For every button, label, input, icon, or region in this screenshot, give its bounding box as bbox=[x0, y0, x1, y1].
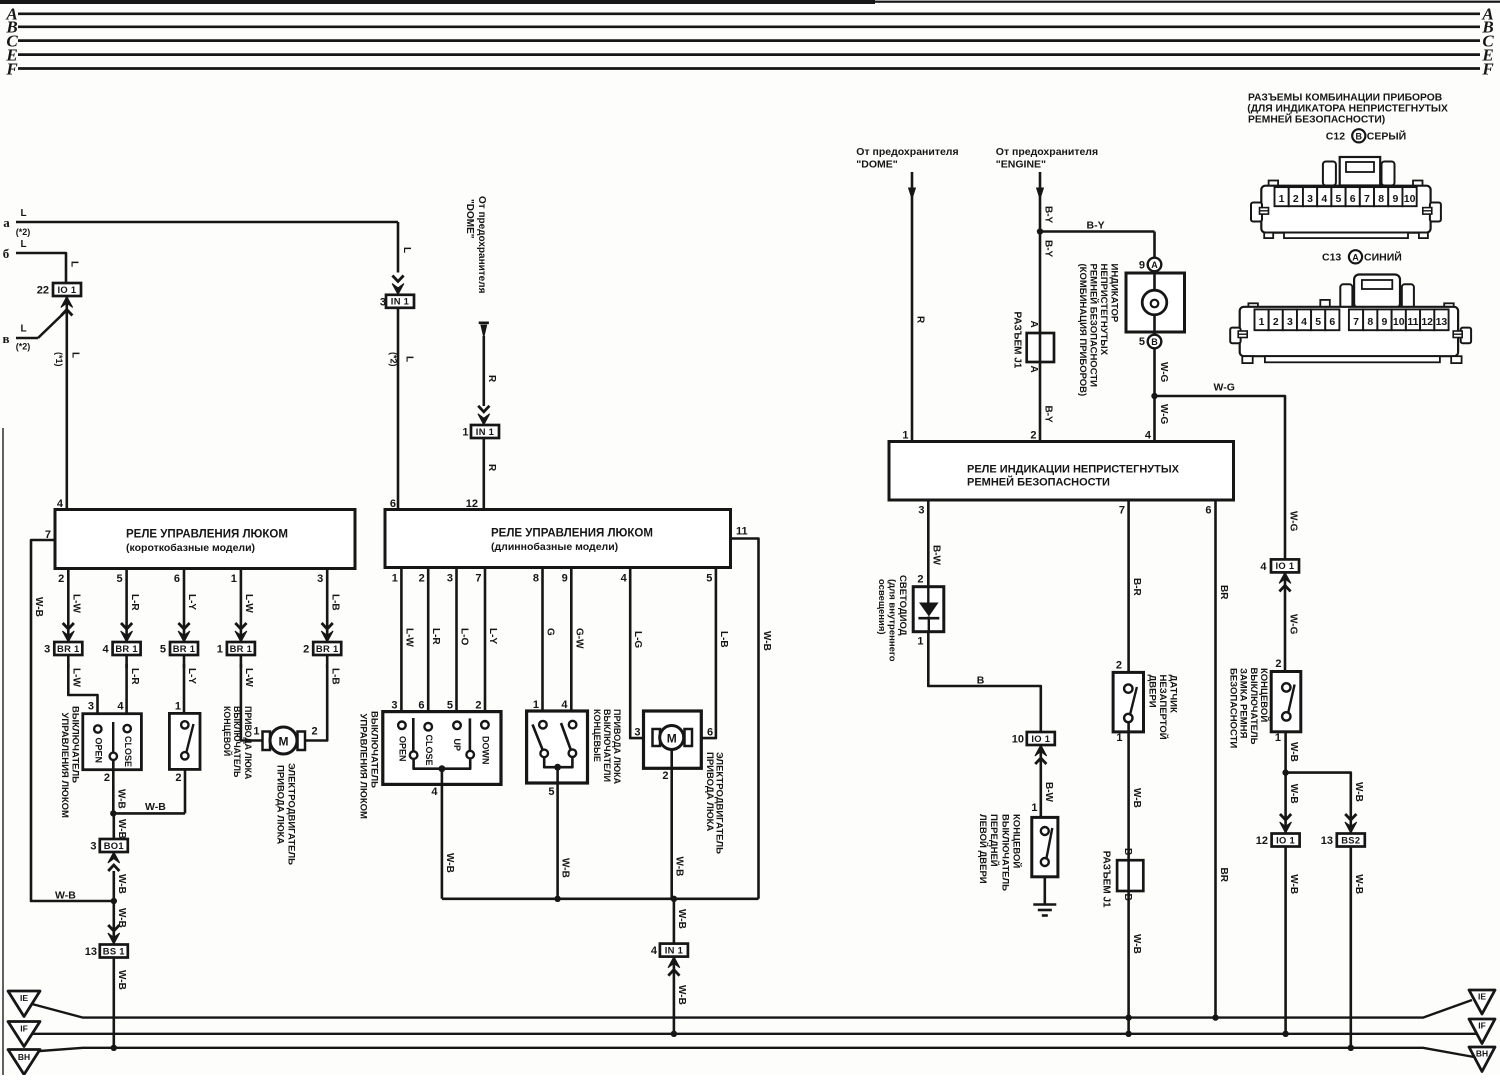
svg-text:C13: C13 bbox=[1322, 252, 1341, 264]
svg-text:BR 1: BR 1 bbox=[173, 643, 196, 654]
bulb bbox=[1142, 290, 1167, 315]
svg-text:W-G: W-G bbox=[1287, 511, 1298, 532]
svg-text:3: 3 bbox=[1287, 316, 1293, 328]
wire lamp branch down bbox=[1153, 232, 1156, 258]
svg-text:C12: C12 bbox=[1326, 131, 1345, 143]
svg-text:R: R bbox=[486, 464, 497, 472]
switch S6: ДАТЧИК НЕЗАПЕРТОЙ ДВЕРИ bbox=[1113, 672, 1143, 732]
bus line C bbox=[18, 39, 1480, 42]
wire relay2 pin 5 (L-B) bbox=[693, 568, 716, 739]
svg-text:(короткобазные модели): (короткобазные модели) bbox=[126, 542, 255, 554]
wire node б to IO1 bbox=[16, 253, 66, 283]
svg-text:1: 1 bbox=[902, 430, 908, 442]
svg-text:W-G: W-G bbox=[1158, 362, 1169, 383]
svg-text:5: 5 bbox=[548, 786, 554, 798]
svg-text:22: 22 bbox=[37, 285, 49, 297]
svg-text:W-B: W-B bbox=[116, 908, 127, 928]
svg-text:КОНЦЕВЫЕ: КОНЦЕВЫЕ bbox=[592, 709, 602, 762]
junction dot on IF bbox=[671, 1031, 677, 1037]
triangle IF right bbox=[1469, 1019, 1495, 1044]
contact CLOSE bbox=[124, 725, 131, 732]
svg-text:2: 2 bbox=[475, 700, 481, 712]
wire relay1 pin 7 W-B bbox=[31, 540, 114, 901]
wire IO1-12 to bus IF bbox=[1284, 847, 1287, 1034]
svg-text:7: 7 bbox=[1364, 193, 1370, 205]
connector BR1 pin 5 bbox=[170, 642, 198, 655]
junction dot on BH bbox=[111, 1045, 117, 1051]
wire S7 down bbox=[1284, 732, 1287, 834]
svg-text:3: 3 bbox=[634, 727, 640, 739]
wire node в diagonal bbox=[16, 337, 38, 340]
svg-text:8: 8 bbox=[1367, 316, 1373, 328]
svg-text:ЛЕВОЙ ДВЕРИ: ЛЕВОЙ ДВЕРИ bbox=[977, 814, 989, 884]
arrow up into IO1-4 bbox=[1279, 572, 1291, 591]
wire relay1 pin 6 (L-Y) bbox=[183, 569, 186, 644]
svg-text:ВЫКЛЮЧАТЕЛЬ: ВЫКЛЮЧАТЕЛЬ bbox=[369, 711, 380, 788]
svg-text:2: 2 bbox=[662, 770, 668, 782]
svg-text:4: 4 bbox=[102, 644, 109, 656]
svg-text:B-Y: B-Y bbox=[1042, 406, 1053, 424]
svg-text:5: 5 bbox=[160, 644, 166, 656]
svg-text:A: A bbox=[1028, 366, 1039, 373]
wire relay3 pin 7 (B-R) bbox=[1127, 500, 1130, 685]
svg-text:13: 13 bbox=[1436, 316, 1448, 328]
wire below BR1 pin 2 (L-B) bbox=[326, 655, 329, 668]
svg-text:2: 2 bbox=[917, 574, 923, 586]
svg-text:4: 4 bbox=[651, 945, 658, 957]
arrow up into IN1-4 bbox=[668, 957, 680, 976]
svg-text:B-W: B-W bbox=[931, 545, 942, 566]
arrow into BS2 bbox=[1345, 814, 1357, 833]
wire B-Y to lamp bbox=[1040, 230, 1155, 233]
connector IO1 pin 22 bbox=[53, 283, 81, 296]
svg-text:F: F bbox=[1481, 59, 1494, 78]
svg-text:BH: BH bbox=[18, 1052, 30, 1062]
wire S3 pin 4 down bbox=[441, 784, 444, 898]
contact bbox=[398, 722, 406, 730]
svg-text:БЕЗОПАСНОСТИ: БЕЗОПАСНОСТИ bbox=[1227, 668, 1238, 748]
svg-text:BO1: BO1 bbox=[104, 840, 124, 851]
wire below BR1 pin 5 (L-Y) bbox=[183, 655, 186, 668]
svg-text:От предохранителя: От предохранителя bbox=[856, 146, 958, 158]
bus line F bbox=[18, 67, 1480, 70]
svg-text:W-B: W-B bbox=[1353, 874, 1364, 894]
relay U3: РЕЛЕ ИНДИКАЦИИ НЕПРИСТЕГНУТЫХ РЕМНЕЙ БЕЗОПАСНОСТИ bbox=[889, 442, 1234, 501]
svg-text:а: а bbox=[3, 215, 10, 230]
junction dot M2 bbox=[671, 896, 677, 902]
svg-text:L: L bbox=[20, 324, 26, 335]
svg-text:4: 4 bbox=[1301, 316, 1307, 328]
svg-text:7: 7 bbox=[1353, 316, 1359, 328]
contact common bbox=[110, 753, 117, 760]
svg-text:L-W: L-W bbox=[71, 594, 82, 613]
svg-text:BR: BR bbox=[1218, 585, 1229, 600]
triangle IF left bbox=[8, 1022, 40, 1047]
svg-text:5: 5 bbox=[1315, 316, 1321, 328]
svg-text:3: 3 bbox=[447, 573, 453, 585]
svg-text:CLOSE: CLOSE bbox=[424, 735, 434, 766]
wire limit switch pin 2 bbox=[184, 770, 187, 814]
svg-text:6: 6 bbox=[1350, 193, 1356, 205]
contact S4 d bbox=[569, 749, 577, 757]
arrow into IN1-3 bbox=[392, 276, 404, 295]
svg-text:1: 1 bbox=[253, 726, 259, 738]
svg-text:2: 2 bbox=[419, 573, 425, 585]
svg-text:4: 4 bbox=[1145, 430, 1152, 442]
junction dot pin6 on IE bbox=[1212, 1014, 1218, 1020]
wire relay2 pin 2 (L-R) bbox=[427, 568, 430, 722]
contact bottom S2 bbox=[181, 752, 188, 759]
bus IF bbox=[33, 1033, 1477, 1035]
svg-text:ДАТЧИК: ДАТЧИК bbox=[1168, 675, 1179, 713]
svg-text:1: 1 bbox=[217, 644, 223, 656]
svg-text:B-Y: B-Y bbox=[1042, 206, 1053, 224]
wire IO1-10 to door switch bbox=[1040, 745, 1043, 827]
triangle IE left bbox=[8, 991, 40, 1017]
svg-text:B-Y: B-Y bbox=[1042, 240, 1053, 258]
svg-text:IF: IF bbox=[20, 1024, 28, 1034]
svg-text:W-B: W-B bbox=[145, 801, 166, 813]
svg-text:(длиннобазные модели): (длиннобазные модели) bbox=[491, 541, 618, 553]
junction dot on IE bbox=[1125, 1014, 1131, 1020]
top border bar bbox=[0, 0, 875, 4]
svg-text:10: 10 bbox=[1404, 193, 1416, 205]
arrow into BS1 bbox=[108, 925, 120, 944]
svg-text:BS2: BS2 bbox=[1341, 834, 1360, 845]
contact OPEN bbox=[94, 725, 101, 732]
bus line E bbox=[18, 53, 1480, 56]
wire relay2 pin 4 (L-G) bbox=[630, 568, 652, 739]
switch S5: КОНЦЕВОЙ ВЫКЛЮЧАТЕЛЬ ПЕРЕДНЕЙ ЛЕВОЙ ДВЕРИ bbox=[1032, 817, 1058, 876]
svg-text:2: 2 bbox=[1030, 430, 1036, 442]
svg-text:6: 6 bbox=[418, 700, 424, 712]
bus IE bbox=[32, 1000, 1472, 1018]
wire BS2 to bus BH bbox=[1350, 847, 1353, 1048]
wire relay3 pin 6 (BR) bbox=[1214, 500, 1217, 1018]
svg-text:2: 2 bbox=[1116, 660, 1122, 672]
svg-text:W-B: W-B bbox=[1288, 742, 1299, 762]
wire relay2 pin 1 (L-W) bbox=[400, 568, 403, 722]
svg-text:IN 1: IN 1 bbox=[665, 944, 683, 955]
wire relay2 pin 11 W-B bbox=[731, 539, 759, 899]
svg-text:1: 1 bbox=[1279, 193, 1285, 205]
wire BR1-2 to motor bbox=[306, 664, 327, 741]
C12 pin cells bbox=[1275, 187, 1289, 206]
connector ring A pin 9 bbox=[1148, 258, 1162, 272]
svg-text:4: 4 bbox=[1321, 193, 1327, 205]
connector IN1 pin 4 bbox=[660, 944, 688, 957]
svg-text:W-B: W-B bbox=[1353, 782, 1364, 802]
svg-text:УПРАВЛЕНИЯ ЛЮКОМ: УПРАВЛЕНИЯ ЛЮКОМ bbox=[358, 714, 369, 820]
common link to pin 4 bbox=[414, 759, 471, 769]
svg-text:L-R: L-R bbox=[430, 628, 441, 645]
svg-text:3: 3 bbox=[918, 505, 924, 517]
svg-text:РЕМНЕЙ БЕЗОПАСНОСТИ: РЕМНЕЙ БЕЗОПАСНОСТИ bbox=[1087, 264, 1099, 388]
svg-text:12: 12 bbox=[1256, 835, 1268, 847]
svg-text:ВЫКЛЮЧАТЕЛЬ: ВЫКЛЮЧАТЕЛЬ bbox=[999, 814, 1010, 891]
svg-text:L-G: L-G bbox=[632, 631, 643, 648]
common link S4 bbox=[544, 757, 572, 767]
svg-text:B: B bbox=[1356, 131, 1363, 141]
wire node a to IN1 bbox=[16, 221, 398, 224]
svg-text:W-B: W-B bbox=[115, 789, 126, 809]
svg-text:2: 2 bbox=[303, 644, 309, 656]
svg-text:IE: IE bbox=[1478, 992, 1486, 1002]
arrow into IO1-12 bbox=[1280, 814, 1292, 833]
wire S5 to ground bbox=[1044, 877, 1047, 905]
wire relay3 pin 3 (B-W) bbox=[927, 500, 930, 587]
svg-text:4: 4 bbox=[561, 699, 568, 711]
svg-text:L-O: L-O bbox=[459, 628, 470, 645]
switch arm bbox=[112, 722, 114, 752]
svg-text:W-B: W-B bbox=[676, 909, 687, 929]
wire BS1 to bus BH bbox=[113, 958, 116, 1048]
wire relay1 pin 5 (L-R) bbox=[125, 569, 128, 644]
svg-text:B-R: B-R bbox=[1131, 578, 1142, 597]
wire below BR1 pin 4 (L-R) bbox=[125, 655, 128, 668]
svg-text:W-B: W-B bbox=[761, 631, 772, 651]
svg-text:W-B: W-B bbox=[1131, 934, 1142, 954]
svg-text:УПРАВЛЕНИЯ ЛЮКОМ: УПРАВЛЕНИЯ ЛЮКОМ bbox=[59, 713, 70, 819]
contact S4 b bbox=[569, 721, 577, 729]
connector BR1 pin 2 bbox=[313, 642, 341, 655]
svg-text:9: 9 bbox=[1382, 316, 1388, 328]
svg-text:ЭЛЕКТРОДВИГАТЕЛЬ: ЭЛЕКТРОДВИГАТЕЛЬ bbox=[286, 763, 297, 865]
svg-text:7: 7 bbox=[475, 573, 481, 585]
svg-text:4: 4 bbox=[1260, 561, 1267, 573]
svg-text:W-B: W-B bbox=[116, 874, 127, 894]
svg-text:L: L bbox=[20, 239, 26, 250]
svg-text:BR 1: BR 1 bbox=[57, 643, 80, 654]
svg-text:12: 12 bbox=[1421, 316, 1433, 328]
svg-text:1: 1 bbox=[1031, 802, 1037, 814]
svg-text:(для внутреннего: (для внутреннего bbox=[886, 579, 897, 662]
svg-text:L-B: L-B bbox=[329, 668, 340, 685]
svg-text:IO 1: IO 1 bbox=[1031, 733, 1050, 744]
left page border bbox=[2, 428, 4, 1075]
svg-text:КОНЦЕВОЙ: КОНЦЕВОЙ bbox=[222, 706, 233, 756]
connector ring B pin 5 bbox=[1148, 335, 1162, 349]
triangle BH right bbox=[1469, 1047, 1495, 1072]
wire BR1-4 to switch CLOSE bbox=[125, 664, 128, 725]
connector C13 drawing bbox=[1230, 275, 1471, 364]
svg-text:2: 2 bbox=[1273, 316, 1279, 328]
svg-text:РЕМНЕЙ БЕЗОПАСНОСТИ: РЕМНЕЙ БЕЗОПАСНОСТИ bbox=[967, 476, 1110, 489]
contact common 2 bbox=[466, 751, 474, 759]
svg-text:L: L bbox=[404, 356, 415, 362]
wire branch to BS2 bbox=[1286, 773, 1351, 834]
svg-text:BR 1: BR 1 bbox=[115, 643, 138, 654]
svg-text:3: 3 bbox=[1307, 193, 1313, 205]
svg-text:3: 3 bbox=[44, 644, 50, 656]
svg-text:РЕМНЕЙ БЕЗОПАСНОСТИ): РЕМНЕЙ БЕЗОПАСНОСТИ) bbox=[1248, 112, 1385, 125]
svg-text:ИНДИКАТОР: ИНДИКАТОР bbox=[1108, 264, 1119, 323]
svg-text:НЕПРИСТЕГНУТЫХ: НЕПРИСТЕГНУТЫХ bbox=[1098, 264, 1109, 356]
wire node a drop to IN1-3 bbox=[397, 222, 400, 273]
svg-text:4: 4 bbox=[431, 786, 438, 798]
ground bbox=[1033, 903, 1056, 906]
svg-text:L-B: L-B bbox=[718, 631, 729, 648]
wire S1/S2 junction to BO1 bbox=[113, 813, 116, 852]
svg-text:W-B: W-B bbox=[1288, 784, 1299, 804]
svg-text:(*1): (*1) bbox=[54, 352, 64, 367]
wire S6 to J1 bbox=[1127, 722, 1130, 860]
wire below BR1 pin 3 (L-W) bbox=[67, 655, 70, 668]
svg-text:DOWN: DOWN bbox=[481, 736, 491, 765]
connector C12 drawing bbox=[1251, 157, 1441, 238]
svg-text:ПРИВОДА ЛЮКА: ПРИВОДА ЛЮКА bbox=[612, 709, 622, 785]
wire IO1 to relay pin 4 bbox=[66, 297, 69, 510]
connector BS2 pin 13 bbox=[1337, 834, 1365, 847]
wire DOME to relay3 pin 1 bbox=[911, 172, 914, 442]
junction dot S7 bbox=[1282, 769, 1288, 775]
switch arm 2 bbox=[469, 718, 472, 750]
svg-text:R: R bbox=[914, 316, 925, 324]
svg-text:8: 8 bbox=[533, 573, 539, 585]
svg-text:W-B: W-B bbox=[55, 890, 76, 902]
svg-text:G: G bbox=[545, 628, 556, 636]
contact top S2 bbox=[181, 721, 188, 728]
feed arrow DOME bbox=[479, 321, 489, 324]
svg-text:РАЗЪЕМ J1: РАЗЪЕМ J1 bbox=[1101, 851, 1112, 908]
arrow into BR1 pin 4 bbox=[121, 623, 133, 642]
svg-text:B: B bbox=[1151, 337, 1158, 347]
svg-text:ВЫКЛЮЧАТЕЛИ: ВЫКЛЮЧАТЕЛИ bbox=[602, 709, 612, 782]
svg-text:"DOME": "DOME" bbox=[464, 199, 475, 239]
wire BR1-1 to motor bbox=[241, 664, 262, 741]
svg-text:L-R: L-R bbox=[129, 668, 140, 685]
svg-text:РЕЛЕ УПРАВЛЕНИЯ ЛЮКОМ: РЕЛЕ УПРАВЛЕНИЯ ЛЮКОМ bbox=[126, 529, 288, 541]
svg-text:B: B bbox=[977, 675, 985, 687]
switch S3: ВЫКЛЮЧАТЕЛЬ УПРАВЛЕНИЯ ЛЮКОМ (long) bbox=[383, 712, 501, 785]
svg-text:IO 1: IO 1 bbox=[1276, 560, 1295, 571]
svg-text:б: б bbox=[3, 246, 10, 261]
svg-text:"DOME": "DOME" bbox=[856, 158, 897, 170]
wire BR1-3 to switch OPEN bbox=[68, 664, 97, 725]
wire IN1-1 to relay2 pin 12 bbox=[482, 437, 485, 509]
svg-text:2: 2 bbox=[1275, 658, 1281, 670]
svg-text:A: A bbox=[1028, 321, 1039, 328]
svg-text:6: 6 bbox=[1329, 316, 1335, 328]
svg-text:(*2): (*2) bbox=[389, 352, 399, 367]
svg-text:3: 3 bbox=[90, 841, 96, 853]
svg-text:L: L bbox=[401, 247, 412, 253]
svg-text:3: 3 bbox=[391, 700, 397, 712]
svg-text:W-B: W-B bbox=[444, 853, 455, 873]
wire BR1-5 to limit switch bbox=[183, 664, 186, 722]
connector IO1 pin 4 (right) bbox=[1271, 559, 1299, 572]
svg-text:L-B: L-B bbox=[329, 594, 340, 611]
svg-text:ПРИВОДА ЛЮКА: ПРИВОДА ЛЮКА bbox=[704, 752, 715, 831]
svg-text:W-B: W-B bbox=[116, 819, 127, 839]
svg-text:2: 2 bbox=[175, 772, 181, 784]
svg-text:5: 5 bbox=[1139, 336, 1145, 348]
svg-text:W-B: W-B bbox=[676, 985, 687, 1005]
connector РАЗЪЕМ J1 (B) bbox=[1117, 860, 1143, 891]
wire ENGINE B-Y bbox=[1039, 172, 1042, 442]
svg-text:BR: BR bbox=[1218, 868, 1229, 883]
svg-text:BR 1: BR 1 bbox=[230, 643, 253, 654]
svg-text:6: 6 bbox=[1205, 505, 1211, 517]
connector IN1 pin 3 bbox=[386, 295, 414, 308]
svg-text:IO 1: IO 1 bbox=[58, 284, 77, 295]
arrow into IO1 bbox=[61, 297, 73, 316]
arrow into BR1 pin 5 bbox=[178, 623, 190, 642]
svg-text:CLOSE: CLOSE bbox=[123, 736, 133, 767]
svg-text:3: 3 bbox=[88, 701, 94, 713]
arrow into BR1 pin 3 bbox=[62, 623, 74, 642]
motor M2: ЭЛЕКТРОДВИГАТЕЛЬ ПРИВОДА ЛЮКА (long) bbox=[644, 711, 702, 768]
svg-text:BH: BH bbox=[1476, 1049, 1488, 1059]
svg-text:L-W: L-W bbox=[243, 594, 254, 613]
connector BR1 pin 3 bbox=[54, 642, 82, 655]
switch S4: КОНЦЕВЫЕ ВЫКЛЮЧАТЕЛИ ПРИВОДА ЛЮКА bbox=[527, 711, 588, 783]
svg-text:1: 1 bbox=[175, 701, 181, 713]
contact S4 a bbox=[539, 721, 547, 729]
relay U2: РЕЛЕ УПРАВЛЕНИЯ ЛЮКОМ (длиннобазные модели) bbox=[385, 510, 731, 568]
contact bbox=[481, 721, 489, 729]
svg-text:L-Y: L-Y bbox=[186, 668, 197, 684]
svg-text:ВЫКЛЮЧАТЕЛЬ: ВЫКЛЮЧАТЕЛЬ bbox=[232, 706, 242, 778]
svg-text:9: 9 bbox=[562, 573, 568, 585]
junction dot pin7/BO1 bbox=[111, 898, 117, 904]
svg-text:W-B: W-B bbox=[674, 857, 685, 877]
wire relay2 pin 7 (L-Y) bbox=[484, 568, 487, 722]
arrow into BR1 pin 1 bbox=[235, 623, 247, 642]
svg-text:НЕЗАПЕРТОЙ: НЕЗАПЕРТОЙ bbox=[1157, 675, 1169, 740]
wire relay1 pin 1 (L-W) bbox=[240, 569, 243, 644]
svg-text:7: 7 bbox=[1119, 505, 1125, 517]
arrow up into BO1 bbox=[108, 852, 120, 871]
svg-text:G-W: G-W bbox=[573, 628, 584, 649]
svg-text:СЕРЫЙ: СЕРЫЙ bbox=[1367, 130, 1406, 143]
svg-text:1: 1 bbox=[533, 699, 539, 711]
svg-text:W-B: W-B bbox=[33, 597, 44, 617]
svg-text:W-G: W-G bbox=[1214, 382, 1235, 394]
wire through J1-2 bbox=[1127, 860, 1130, 891]
arrow into IN1-1 bbox=[478, 406, 490, 425]
bus BH bbox=[40, 1048, 1474, 1057]
arrow into BR1 pin 2 bbox=[321, 623, 333, 642]
wire relay1 pin 3 (L-B) bbox=[326, 569, 329, 644]
connector BO1 pin 3 bbox=[100, 839, 128, 852]
svg-text:M: M bbox=[279, 734, 289, 748]
indicator lamp box bbox=[1126, 273, 1185, 332]
switch S2: КОНЦЕВОЙ ВЫКЛЮЧАТЕЛЬ ПРИВОДА ЛЮКА (short) bbox=[169, 713, 200, 769]
svg-text:BS 1: BS 1 bbox=[103, 945, 125, 956]
contact common 1 bbox=[410, 751, 418, 759]
svg-text:W-B: W-B bbox=[1131, 788, 1142, 808]
wire LED to IO1-10 bbox=[928, 632, 1041, 732]
svg-text:2: 2 bbox=[104, 772, 110, 784]
connector IO1 pin 12 bbox=[1272, 834, 1300, 847]
svg-text:W-B: W-B bbox=[116, 970, 127, 990]
svg-text:ПРИВОДА ЛЮКА: ПРИВОДА ЛЮКА bbox=[275, 765, 286, 844]
junction dot BS2 on BH bbox=[1348, 1045, 1354, 1051]
svg-text:ВЫКЛЮЧАТЕЛЬ: ВЫКЛЮЧАТЕЛЬ bbox=[70, 706, 81, 783]
svg-text:BR 1: BR 1 bbox=[316, 643, 339, 654]
svg-text:A: A bbox=[1151, 260, 1158, 270]
svg-text:КОНЦЕВОЙ: КОНЦЕВОЙ bbox=[1011, 814, 1023, 868]
svg-text:СИНИЙ: СИНИЙ bbox=[1364, 251, 1402, 264]
svg-text:3: 3 bbox=[380, 296, 386, 308]
svg-text:(ДЛЯ ИНДИКАТОРА НЕПРИСТЕГНУТЫХ: (ДЛЯ ИНДИКАТОРА НЕПРИСТЕГНУТЫХ bbox=[1247, 103, 1448, 114]
svg-text:9: 9 bbox=[1139, 260, 1145, 272]
svg-text:L: L bbox=[70, 352, 81, 358]
svg-text:КОНЦЕВОЙ: КОНЦЕВОЙ bbox=[1258, 668, 1270, 722]
svg-text:"ENGINE": "ENGINE" bbox=[996, 158, 1046, 170]
svg-text:L-W: L-W bbox=[71, 668, 82, 687]
